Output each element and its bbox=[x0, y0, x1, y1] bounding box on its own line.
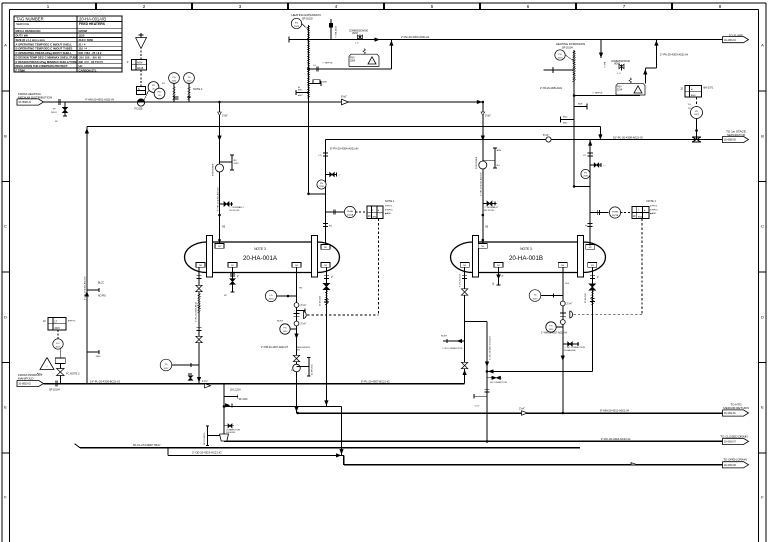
svg-text:B: B bbox=[4, 134, 7, 139]
svg-text:2"-DC-20-4318-HC21-IG: 2"-DC-20-4318-HC21-IG bbox=[601, 437, 630, 441]
flanges2 on A product riser bbox=[197, 327, 202, 329]
feed drop line vessel B bbox=[482, 102, 484, 243]
svg-text:10"-PL-20-4308-A021-IG: 10"-PL-20-4308-A021-IG bbox=[613, 136, 643, 140]
svg-text:PG: PG bbox=[558, 54, 561, 56]
connection from expansion down to flare line bbox=[330, 19, 332, 40]
flanges on x487 bbox=[485, 388, 490, 390]
flanged joint on A condensate bbox=[294, 303, 299, 308]
svg-text:2"-HM-20-4302-A021-IH: 2"-HM-20-4302-A021-IH bbox=[216, 187, 219, 211]
feed drop line vessel A bbox=[219, 102, 221, 243]
svg-text:600 / 581 . 25 / 8.2: 600 / 581 . 25 / 8.2 bbox=[79, 51, 102, 55]
valve on B N3 drain bbox=[589, 284, 595, 287]
svg-text:ASD: ASD bbox=[373, 215, 378, 218]
svg-text:►RFTC: ►RFTC bbox=[385, 208, 393, 211]
vessel B left tube sheet bbox=[473, 236, 479, 278]
closed drain riser x224 bbox=[223, 384, 225, 435]
dc drop line x487 bbox=[486, 322, 488, 442]
N7 drain stub vessel B bbox=[498, 267, 500, 285]
TG stub arrow B product bbox=[443, 340, 465, 342]
svg-text:2013: 2013 bbox=[558, 57, 564, 59]
inline instrument on B feed bbox=[479, 161, 487, 169]
svg-text:LIC: LIC bbox=[56, 343, 60, 345]
svg-text:►FITG: ►FITG bbox=[650, 205, 657, 208]
vessel B nozzle boxes bbox=[478, 244, 487, 249]
svg-text:¾": ¾" bbox=[603, 165, 606, 168]
svg-text:ARAB: ARAB bbox=[137, 67, 144, 70]
PG gauge on vapor B bbox=[581, 169, 590, 178]
isolation flanges vapor A bbox=[323, 152, 328, 154]
svg-text:2003: 2003 bbox=[294, 26, 300, 28]
svg-text:-29 / 100 . -29 / 65: -29 / 100 . -29 / 65 bbox=[79, 55, 102, 59]
spectacle blind left of funnel bbox=[207, 426, 209, 446]
svg-text:BLCC: BLCC bbox=[98, 282, 104, 284]
svg-text:NDE: NDE bbox=[578, 104, 583, 106]
restriction orifice stub A feed bbox=[220, 161, 233, 163]
svg-text:FO: FO bbox=[291, 370, 294, 372]
svg-text:HG: HG bbox=[566, 283, 570, 285]
hm return riser x87 bbox=[86, 127, 88, 384]
valve on A N3 drain bbox=[323, 283, 329, 286]
control function box A bbox=[367, 206, 383, 219]
svg-text:1600: 1600 bbox=[96, 356, 102, 358]
warning triangle at LCV bbox=[40, 358, 54, 370]
stub PSV B inlet to vapor line bbox=[574, 185, 590, 187]
svg-text:B OPERATING TEMP DEG C IN/OUT: B OPERATING TEMP DEG C IN/OUT TUBES bbox=[16, 47, 73, 51]
flow arrow on flare header bbox=[375, 38, 380, 42]
PG on psv line A bbox=[291, 18, 301, 28]
bypass stub B feed bbox=[483, 203, 497, 205]
svg-text:1150: 1150 bbox=[79, 34, 85, 38]
svg-text:2"-HM-20-4307-A021-IH: 2"-HM-20-4307-A021-IH bbox=[261, 346, 288, 349]
svg-text:NO FLOW: NO FLOW bbox=[230, 210, 240, 212]
svg-text:2"-PL-20-4315-BC21: 2"-PL-20-4315-BC21 bbox=[195, 301, 197, 322]
svg-text:VENT: VENT bbox=[614, 63, 621, 65]
svg-text:20-LC21A: 20-LC21A bbox=[230, 388, 241, 391]
svg-text:TO OPEN DRAIN: TO OPEN DRAIN bbox=[723, 457, 747, 461]
vapor riser vessel B bbox=[589, 140, 591, 246]
signal dashed to SDV B bbox=[573, 314, 642, 316]
spring on psv A bbox=[363, 49, 366, 55]
svg-text:2": 2" bbox=[597, 277, 599, 279]
svg-text:20103: 20103 bbox=[51, 112, 57, 114]
LG level gauge A bbox=[265, 290, 276, 301]
svg-text:2"-PA-20-4303-A021-IH: 2"-PA-20-4303-A021-IH bbox=[660, 53, 688, 57]
svg-text:ASD: ASD bbox=[638, 215, 643, 218]
spring on psv B bbox=[629, 78, 632, 84]
flow arrow on A feed bbox=[218, 136, 222, 141]
svg-text:NOTE: NOTE bbox=[277, 320, 284, 322]
TG gauge A bbox=[160, 359, 172, 371]
vessel 20-HA-001B shell bbox=[473, 242, 583, 273]
svg-text:NOTE 3: NOTE 3 bbox=[254, 247, 266, 251]
svg-text:INSULATION THK FIRE/PERS PROT: INSULATION THK FIRE/PERS PROTECT bbox=[16, 64, 69, 68]
svg-text:20-: 20- bbox=[688, 108, 691, 110]
open circle fitting B condensate bbox=[560, 320, 565, 325]
left stub with blind on psv line B bbox=[544, 69, 574, 71]
svg-text:HY: HY bbox=[152, 85, 156, 87]
commissioning vent valve A bbox=[359, 35, 361, 40]
svg-text:FEED HEATERS: FEED HEATERS bbox=[79, 22, 106, 26]
svg-text:▼NC: ▼NC bbox=[37, 372, 43, 375]
svg-text:NOTE: NOTE bbox=[441, 336, 448, 338]
warm-up line y126 bbox=[87, 126, 601, 128]
svg-text:2015: 2015 bbox=[55, 328, 61, 330]
svg-text:LO: LO bbox=[313, 65, 316, 67]
svg-text:1"x2": 1"x2" bbox=[475, 406, 480, 408]
signal dashed from box A down bbox=[377, 219, 379, 316]
product riser into vessel A N6 bbox=[198, 267, 200, 383]
svg-text:HEATING EXPANSION: HEATING EXPANSION bbox=[292, 13, 321, 17]
spec stub left on psv line B bbox=[561, 119, 575, 121]
svg-text:TO CLOSED DRAIN: TO CLOSED DRAIN bbox=[720, 434, 747, 438]
bypass stub A feed bbox=[220, 203, 234, 205]
svg-text:2027: 2027 bbox=[533, 298, 539, 300]
svg-text:2016: 2016 bbox=[269, 299, 275, 301]
fs flanges on vapor A bbox=[323, 223, 328, 225]
svg-text:NO PIG: NO PIG bbox=[98, 295, 106, 297]
svg-text:PSV: PSV bbox=[617, 86, 622, 88]
restriction orifice stub B feed bbox=[483, 159, 495, 161]
N6 drain stub vessel A bbox=[232, 267, 234, 292]
svg-text:HG: HG bbox=[299, 287, 303, 289]
vent funnel top bbox=[140, 49, 142, 60]
svg-text:C: C bbox=[4, 224, 7, 229]
vessel A nozzle boxes bbox=[215, 244, 224, 249]
small valve near TG stub bbox=[188, 373, 192, 375]
svg-text:20-VB20-02: 20-VB20-02 bbox=[19, 384, 32, 386]
flare header line bbox=[289, 39, 723, 41]
PSV B inlet line (traced) bbox=[573, 50, 575, 186]
svg-text:INSULATION: INSULATION bbox=[297, 346, 310, 349]
svg-text:2"-OD-20-4319-HC21-IG: 2"-OD-20-4319-HC21-IG bbox=[192, 451, 222, 455]
drain stub below spec break bbox=[64, 102, 66, 116]
svg-text:◄NC: ◄NC bbox=[298, 94, 304, 97]
dashed from interlock to HY bbox=[696, 97, 698, 107]
B drains collect line bbox=[487, 370, 592, 372]
svg-text:2004: 2004 bbox=[350, 60, 356, 62]
hazard note box with PSV B bbox=[616, 83, 645, 95]
check valve on x224 bbox=[225, 404, 230, 408]
gate valve low on A condensate bbox=[293, 355, 299, 358]
open drain line left segment bbox=[168, 454, 344, 456]
flanges2 A N3 drain bbox=[324, 298, 329, 300]
hazard note box with PSV A bbox=[349, 54, 379, 66]
svg-text:MEDIUM RETURN: MEDIUM RETURN bbox=[723, 406, 749, 410]
svg-text:TG: TG bbox=[533, 294, 536, 296]
vapor header to separator bbox=[326, 139, 723, 141]
svg-text:◆ASD: ◆ASD bbox=[650, 212, 657, 215]
flanges on B product riser bbox=[462, 275, 467, 277]
instrument signal dashed to AGM box bbox=[140, 70, 142, 87]
svg-text:NOTE 3: NOTE 3 bbox=[520, 247, 532, 251]
svg-text:VENT: VENT bbox=[352, 33, 359, 35]
svg-text:ASD: ASD bbox=[691, 94, 696, 97]
svg-text:20-4318-07: 20-4318-07 bbox=[724, 442, 736, 444]
svg-text:HY: HY bbox=[695, 111, 699, 113]
svg-text:AGM: AGM bbox=[137, 62, 142, 65]
HY shutdown valve on separator line bbox=[691, 107, 703, 119]
svg-text:2"x6": 2"x6" bbox=[485, 114, 491, 117]
svg-text:20-HM20-01: 20-HM20-01 bbox=[19, 102, 32, 104]
isolation flanges on relief line A bbox=[315, 67, 317, 72]
PSHH instrument B bbox=[609, 207, 620, 218]
svg-text:C OPERATING PRESS kPag IN/OUT: C OPERATING PRESS kPag IN/OUT SHELL bbox=[16, 51, 72, 55]
temperature gauge on header 2 bbox=[184, 73, 195, 84]
flanges on A N3 drain bbox=[324, 275, 329, 277]
svg-text:MECH. DESIGN NO: MECH. DESIGN NO bbox=[16, 29, 42, 33]
svg-text:ACH: ACH bbox=[497, 149, 502, 152]
PG gauge on vapor A bbox=[317, 180, 326, 189]
svg-text:¾": ¾" bbox=[338, 174, 341, 177]
signal dashed from box B down bbox=[641, 219, 643, 315]
svg-text:2014: 2014 bbox=[617, 89, 623, 91]
leader from HIC to valve bbox=[144, 91, 149, 101]
svg-text:20-HA-001B: 20-HA-001B bbox=[564, 349, 576, 352]
drain cap stub A condensate bbox=[297, 310, 306, 312]
stub left on x487 bbox=[474, 395, 487, 397]
svg-text:20-4308-05: 20-4308-05 bbox=[724, 140, 736, 142]
pressure gauge on header 1 bbox=[169, 73, 180, 84]
svg-text:2015: 2015 bbox=[56, 346, 62, 348]
svg-text:◆ASD: ◆ASD bbox=[385, 212, 392, 215]
svg-text:2"x4": 2"x4" bbox=[519, 407, 525, 410]
svg-text:E: E bbox=[761, 405, 764, 410]
top ruler zone ticks and numbers bbox=[95, 3, 97, 10]
svg-text:2"-HM-20-4317-A021-IH: 2"-HM-20-4317-A021-IH bbox=[541, 332, 567, 335]
svg-text:A: A bbox=[4, 43, 7, 48]
svg-text:20-DI-4320: 20-DI-4320 bbox=[320, 295, 322, 306]
flanged joint on B condensate bbox=[560, 301, 565, 306]
condensate line vessel B down bbox=[562, 267, 564, 413]
svg-text:2"-HM-20-4312-A021-IH: 2"-HM-20-4312-A021-IH bbox=[480, 172, 483, 196]
svg-text:20-4319-08: 20-4319-08 bbox=[724, 465, 736, 467]
svg-text:NO CONNECTION: NO CONNECTION bbox=[490, 382, 508, 384]
gate valve on B product riser bbox=[461, 289, 467, 292]
stub PSV A inlet to vapor line bbox=[309, 193, 326, 195]
vapor header reducer circle bbox=[546, 137, 551, 142]
flanges on A product riser bbox=[197, 275, 202, 277]
warmup stub from B product riser bbox=[465, 321, 487, 323]
open drain flow flag bbox=[631, 463, 638, 465]
gate valve on A product riser bbox=[196, 285, 202, 288]
vessel A left tube sheet bbox=[207, 236, 213, 278]
drip tray line bbox=[80, 447, 580, 449]
svg-text:0206M: 0206M bbox=[79, 29, 88, 33]
psv A outlet riser to flare bbox=[390, 40, 392, 69]
vent stub vapor A bbox=[326, 174, 338, 176]
svg-text:RO: RO bbox=[234, 160, 238, 162]
psv B outlet riser to flare bbox=[644, 68, 646, 83]
svg-text:2": 2" bbox=[237, 276, 239, 278]
svg-text:LG: LG bbox=[270, 295, 273, 297]
PSV A inlet line (traced) bbox=[308, 25, 310, 194]
control function box B bbox=[632, 206, 649, 218]
svg-text:2"-PA-20-4303-A021-IH: 2"-PA-20-4303-A021-IH bbox=[401, 35, 429, 39]
svg-text:2017: 2017 bbox=[164, 368, 170, 370]
svg-text:HC: HC bbox=[79, 64, 83, 68]
svg-text:BH-1071: BH-1071 bbox=[704, 86, 714, 89]
open drain line right segment bbox=[344, 464, 723, 466]
svg-text:8"-HM-20-4311-A021-IH: 8"-HM-20-4311-A021-IH bbox=[600, 409, 629, 413]
traced on A N3 drain bbox=[325, 291, 328, 293]
spec break on product header bbox=[54, 381, 56, 387]
vent stub x224 top bbox=[224, 425, 234, 427]
shutdown valve SDV B bbox=[560, 312, 566, 314]
svg-text:2"-PL-20-4316: 2"-PL-20-4316 bbox=[460, 273, 462, 287]
PG below SDV A bbox=[280, 324, 290, 334]
svg-text:►FITG: ►FITG bbox=[385, 205, 392, 208]
svg-text:20-4311-06: 20-4311-06 bbox=[724, 413, 736, 415]
svg-text:PG: PG bbox=[584, 173, 587, 175]
svg-text:FO: FO bbox=[162, 83, 165, 85]
svg-text:110 / 4: 110 / 4 bbox=[79, 47, 88, 51]
vapor riser vessel A bbox=[325, 140, 327, 245]
svg-text:20-DI-4321: 20-DI-4321 bbox=[585, 292, 587, 303]
svg-text:TG: TG bbox=[164, 364, 167, 366]
svg-text:690 / FV . 90 TO FV: 690 / FV . 90 TO FV bbox=[79, 60, 104, 64]
flow triangle on product header bbox=[205, 384, 211, 388]
LT box vessel A bbox=[48, 318, 66, 331]
drain line vessel B right nozzle bbox=[591, 267, 593, 371]
svg-text:NO POCKETS: NO POCKETS bbox=[204, 432, 206, 445]
A drains collect line bbox=[224, 405, 342, 407]
svg-text:2"x¾": 2"x¾" bbox=[301, 323, 307, 326]
svg-text:RO: RO bbox=[497, 165, 501, 167]
svg-text:PG: PG bbox=[320, 183, 323, 185]
svg-text:❤: ❤ bbox=[691, 88, 693, 91]
left margin zone separators and letters bbox=[2, 90, 10, 92]
flow triangle on hm return bbox=[522, 411, 528, 415]
drain line vessel A right nozzle bbox=[325, 267, 327, 406]
closed drain header bbox=[224, 440, 723, 442]
thermowell tick bbox=[175, 96, 179, 98]
vent stub vapor B bbox=[590, 164, 601, 166]
vessel B right tube sheet bbox=[578, 236, 584, 278]
svg-text:◄NC: ◄NC bbox=[298, 89, 304, 92]
isolation flanges vapor B bbox=[588, 152, 593, 154]
stub with tick on x224 bbox=[224, 396, 238, 398]
heating medium supply header bbox=[44, 101, 483, 103]
svg-text:A OPERATING TEMP DEG C IN/OUT: A OPERATING TEMP DEG C IN/OUT SHELL bbox=[16, 42, 73, 46]
svg-text:◄NC: ◄NC bbox=[563, 116, 569, 119]
svg-text:PSHH: PSHH bbox=[612, 211, 618, 213]
svg-text:2134 / 3660: 2134 / 3660 bbox=[79, 38, 94, 42]
PSH stub vapor B bbox=[590, 212, 608, 214]
svg-text:2"x¾": 2"x¾" bbox=[567, 303, 573, 306]
svg-text:21 / 4: 21 / 4 bbox=[79, 42, 86, 46]
svg-text:8"x6": 8"x6" bbox=[341, 95, 347, 98]
svg-text:2021B: 2021B bbox=[612, 215, 619, 217]
line from flare hdr down to vapor hdr (B bypass) bbox=[600, 40, 602, 58]
svg-text:CARBON STL: CARBON STL bbox=[79, 68, 97, 72]
interlock box top right bbox=[685, 86, 702, 98]
svg-text:SP-20104: SP-20104 bbox=[562, 46, 573, 49]
no-connection stub B condensate bbox=[563, 343, 579, 345]
shutdown valve SDV A bbox=[294, 312, 300, 314]
svg-text:SIZE (D x L): SIZE (D x L) mm x mm bbox=[16, 38, 46, 42]
svg-text:C: C bbox=[761, 224, 764, 229]
open drain step down bbox=[343, 455, 345, 464]
svg-text:NO FLOW: NO FLOW bbox=[484, 210, 494, 212]
valve2 on A product riser bbox=[196, 336, 202, 339]
svg-text:2"-DC-20-4317-HC21-IG: 2"-DC-20-4317-HC21-IG bbox=[489, 336, 491, 360]
svg-text:2"x¾": 2"x¾" bbox=[301, 304, 307, 307]
svg-text:¾" NIPPLE: ¾" NIPPLE bbox=[592, 91, 603, 94]
svg-text:8"-PV-20-4304-A021-IH: 8"-PV-20-4304-A021-IH bbox=[330, 146, 358, 150]
svg-text:L.O: L.O bbox=[617, 73, 621, 75]
svg-text:F TRIM: F TRIM bbox=[16, 68, 26, 72]
svg-text:20-SP-2010: 20-SP-2010 bbox=[311, 363, 313, 375]
svg-text:2022: 2022 bbox=[694, 114, 700, 116]
TG gauge B bottom bbox=[529, 290, 541, 302]
drain funnel into drip tray bbox=[220, 434, 229, 441]
nozzle dot A feed bbox=[218, 239, 221, 242]
svg-text:14"-PL-20-4309-BC21-IG: 14"-PL-20-4309-BC21-IG bbox=[90, 379, 120, 383]
PSH stub vapor A bbox=[326, 211, 345, 213]
svg-text:►RFTC: ►RFTC bbox=[68, 319, 76, 322]
LCV level control valve station bbox=[59, 364, 61, 384]
svg-text:2005: 2005 bbox=[234, 163, 240, 165]
svg-text:4"-HM-20-4301-A021-IH: 4"-HM-20-4301-A021-IH bbox=[85, 98, 114, 102]
svg-text:2"-HF-20-4305-A021: 2"-HF-20-4305-A021 bbox=[540, 87, 563, 90]
corner product header up to B bbox=[464, 383, 466, 385]
spec break on hm header bbox=[57, 99, 59, 105]
svg-text:PG: PG bbox=[172, 77, 175, 79]
heating medium return header bbox=[298, 412, 723, 414]
relief line B bbox=[574, 95, 640, 97]
svg-text:20-HA-001A: 20-HA-001A bbox=[243, 255, 278, 262]
svg-text:PSV: PSV bbox=[350, 57, 355, 59]
flow arrow B product bbox=[463, 370, 467, 375]
svg-text:2": 2" bbox=[502, 276, 504, 278]
product feed header from manifold bbox=[44, 383, 465, 385]
svg-text:20-: 20- bbox=[688, 104, 691, 106]
svg-text:D: D bbox=[761, 315, 764, 320]
open drain drop A bbox=[341, 406, 343, 455]
solenoid box above FC/1B bbox=[137, 87, 146, 95]
svg-text:2"x6": 2"x6" bbox=[222, 114, 228, 117]
svg-text:2001: 2001 bbox=[172, 81, 178, 83]
svg-text:2002: 2002 bbox=[187, 81, 193, 83]
valve2 on B product riser bbox=[461, 362, 467, 365]
commissioning vent valve B bbox=[621, 65, 623, 71]
vessel 20-HA-001A shell bbox=[207, 242, 317, 273]
PG on psv line B bbox=[555, 50, 565, 60]
svg-text:NDE: NDE bbox=[323, 81, 328, 83]
inline instrument on A feed bbox=[216, 164, 224, 172]
svg-text:PG: PG bbox=[283, 328, 286, 330]
vessel A right tube sheet bbox=[312, 236, 318, 278]
svg-text:PG: PG bbox=[549, 326, 552, 328]
svg-text:2011A: 2011A bbox=[347, 214, 354, 217]
FO orifice on A condensate bbox=[293, 364, 301, 372]
svg-text:FC/1B: FC/1B bbox=[135, 107, 143, 111]
svg-text:E DESIGN PRESS kPag MIN/MAX SH: E DESIGN PRESS kPag MIN/MAX SHELL/TUBE bbox=[16, 60, 77, 64]
svg-text:SP-20103: SP-20103 bbox=[302, 18, 313, 21]
spec stub right on psv line B bbox=[574, 105, 587, 107]
signal dashed to SDV A bbox=[307, 314, 378, 316]
title block table bbox=[14, 16, 122, 72]
svg-text:50-CL-274-DRIP TRAY: 50-CL-274-DRIP TRAY bbox=[133, 443, 161, 447]
blind stub A condensate bbox=[297, 366, 309, 368]
drain stub on x87 line bbox=[87, 351, 99, 353]
svg-text:NOTE 2: NOTE 2 bbox=[193, 87, 203, 91]
warm-up line drop to vapor header bbox=[599, 127, 601, 136]
svg-text:SP-20104: SP-20104 bbox=[49, 389, 60, 392]
spec stubs on psv line A bbox=[309, 83, 322, 85]
relief line A to psv bbox=[309, 68, 392, 70]
svg-text:TAG NUMBER: TAG NUMBER bbox=[16, 16, 44, 21]
